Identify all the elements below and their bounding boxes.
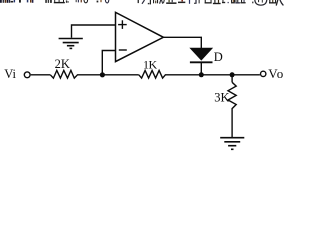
svg-text:2K: 2K	[55, 57, 70, 71]
svg-text:Vi: Vi	[4, 67, 16, 81]
svg-text:Vo: Vo	[268, 66, 284, 81]
svg-text:3K: 3K	[214, 91, 229, 105]
svg-text:1K: 1K	[143, 57, 158, 71]
svg-text:D: D	[214, 50, 223, 64]
